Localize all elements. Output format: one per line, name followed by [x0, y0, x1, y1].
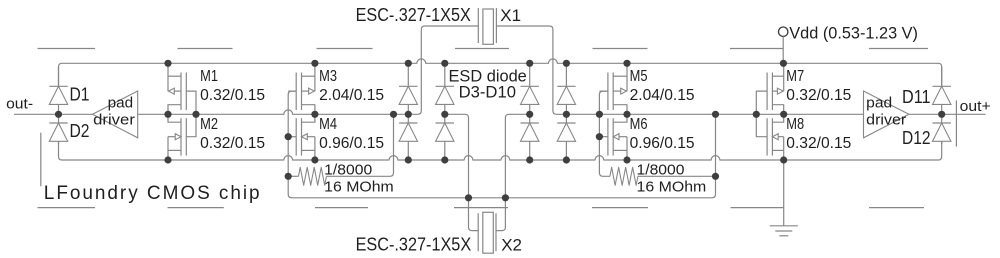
svg-text:16 MOhm: 16 MOhm — [637, 179, 707, 196]
svg-text:1/8000: 1/8000 — [324, 162, 372, 179]
svg-text:pad: pad — [866, 95, 892, 112]
svg-text:M8: M8 — [786, 116, 804, 133]
svg-text:pad: pad — [108, 95, 134, 112]
svg-text:0.96/0.15: 0.96/0.15 — [630, 135, 695, 152]
svg-text:M1: M1 — [200, 68, 218, 85]
svg-text:M4: M4 — [319, 116, 337, 133]
svg-text:M5: M5 — [630, 68, 648, 85]
svg-text:D11: D11 — [902, 87, 931, 107]
svg-text:0.32/0.15: 0.32/0.15 — [200, 135, 265, 152]
svg-text:0.96/0.15: 0.96/0.15 — [319, 135, 384, 152]
svg-text:M7: M7 — [786, 68, 804, 85]
svg-text:ESC-.327-1X5X: ESC-.327-1X5X — [356, 5, 471, 25]
svg-text:16 MOhm: 16 MOhm — [324, 179, 394, 196]
svg-text:2.04/0.15: 2.04/0.15 — [319, 87, 384, 104]
svg-text:driver: driver — [866, 112, 906, 129]
svg-text:M3: M3 — [319, 68, 337, 85]
svg-text:D2: D2 — [70, 121, 90, 141]
svg-text:0.32/0.15: 0.32/0.15 — [786, 135, 851, 152]
svg-text:M2: M2 — [200, 116, 218, 133]
svg-text:0.32/0.15: 0.32/0.15 — [200, 87, 265, 104]
svg-text:X1: X1 — [500, 6, 521, 25]
svg-text:out+: out+ — [960, 98, 991, 115]
svg-text:ESC-.327-1X5X: ESC-.327-1X5X — [356, 235, 472, 255]
svg-text:0.32/0.15: 0.32/0.15 — [786, 87, 851, 104]
svg-text:Vdd (0.53-1.23 V): Vdd (0.53-1.23 V) — [789, 23, 918, 42]
svg-text:2.04/0.15: 2.04/0.15 — [630, 87, 695, 104]
svg-text:D1: D1 — [70, 84, 90, 104]
svg-text:LFoundry CMOS chip: LFoundry CMOS chip — [44, 183, 262, 204]
svg-text:X2: X2 — [501, 235, 522, 254]
svg-text:1/8000: 1/8000 — [637, 162, 685, 179]
svg-text:driver: driver — [93, 112, 135, 129]
svg-text:out-: out- — [6, 96, 33, 113]
svg-text:M6: M6 — [630, 116, 648, 133]
svg-text:D3-D10: D3-D10 — [459, 83, 516, 102]
svg-text:D12: D12 — [902, 128, 931, 148]
